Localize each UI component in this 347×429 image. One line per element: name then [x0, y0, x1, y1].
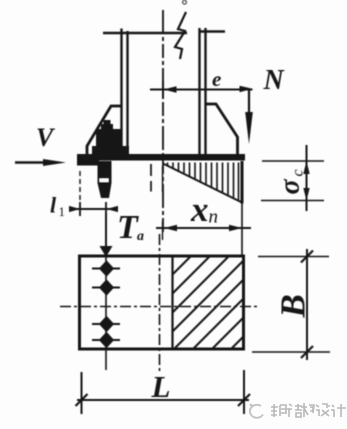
left stiffener gusset [87, 106, 121, 154]
force T_a arrowhead [100, 246, 113, 257]
column right flange line 1 [198, 28, 200, 154]
label sigma_c (rotated) [275, 169, 307, 194]
sigma_c bottom extension line [261, 200, 324, 202]
column left flange line 2 [126, 31, 128, 154]
B top extension line [258, 256, 329, 258]
l1 extension dashed line [79, 171, 81, 200]
bolt diamond 3 [99, 316, 114, 333]
force N line [248, 90, 250, 119]
plan horizontal centerline [60, 306, 257, 308]
stress hatch verticals [168, 163, 239, 201]
dimension B vertical line [306, 249, 308, 360]
dimension x_n right arrowhead [229, 225, 242, 231]
l1 left arrowhead [69, 206, 80, 212]
compression zone hatch lines [173, 256, 244, 349]
bolt diamond 1 [99, 260, 114, 277]
dimension x_n line [156, 227, 251, 229]
dimension x_n left arrowhead [164, 225, 177, 231]
watermark text 钢结构设计 [271, 403, 346, 417]
svg-text:σ: σ [275, 179, 306, 195]
svg-text:B: B [274, 294, 313, 318]
force N arrowhead [245, 112, 253, 144]
break line left segment [103, 32, 187, 34]
sigma_c up arrowhead [303, 161, 309, 174]
anchor bolt chair block [96, 129, 122, 154]
svg-text:a: a [137, 229, 144, 244]
force V arrowhead [43, 159, 66, 166]
B top tick [301, 251, 313, 263]
dimension e left arrowhead [164, 86, 177, 92]
column centerline (elevation, dash-dot) [162, 10, 164, 232]
anchor bolt stem above chair [104, 120, 111, 131]
l1 right tick [105, 202, 107, 216]
plan vertical centerline [159, 234, 161, 372]
sigma_c down arrowhead [303, 188, 309, 201]
svg-text:e: e [212, 67, 221, 91]
right edge extension to plan [241, 204, 243, 258]
dimension l1 line [71, 208, 118, 210]
small dot above break [183, 0, 187, 4]
force T_a shaft [105, 213, 107, 251]
dimension e tick at centerline [162, 81, 164, 98]
anchor bolt shank below plate [98, 161, 112, 198]
L right extension line [243, 370, 245, 414]
B bottom extension line [252, 351, 330, 353]
l1 right arrowhead [107, 206, 119, 212]
L left tick [76, 394, 88, 406]
svg-text:l: l [50, 193, 57, 218]
base plate left lip [77, 160, 99, 166]
break zigzag symbol [175, 12, 186, 59]
dimension sigma_c vertical line [306, 145, 308, 211]
svg-text:V: V [36, 123, 56, 152]
plan view base plate rectangle [80, 256, 244, 349]
compression zone left edge [171, 256, 173, 349]
B bottom tick [301, 346, 313, 358]
anchor bolt line in plan [105, 257, 107, 370]
column right flange line 2 [204, 28, 206, 154]
watermark logo swirl [250, 404, 263, 418]
bolt diamond 4 [99, 332, 114, 349]
stress triangle right edge [241, 161, 244, 204]
break line right segment [199, 30, 225, 32]
column left flange line 1 [120, 29, 122, 155]
anchor bolt seat plate [92, 146, 129, 155]
L right tick [238, 394, 250, 406]
short extension line under plate [150, 164, 152, 192]
bolt diamond 2 [99, 279, 114, 296]
right stiffener gusset [206, 104, 238, 154]
svg-text:N: N [263, 65, 286, 96]
force V line [15, 161, 46, 163]
dimension e right arrowhead [240, 86, 253, 92]
svg-text:L: L [151, 369, 171, 404]
dimension L line [77, 399, 249, 401]
svg-text:1: 1 [59, 204, 66, 219]
l1 left tick [79, 202, 81, 216]
svg-text:n: n [209, 207, 219, 228]
svg-text:x: x [190, 190, 209, 229]
base plate [77, 154, 245, 161]
sigma_c top extension line [262, 160, 324, 162]
svg-text:c: c [290, 169, 307, 176]
dimension e line [150, 89, 253, 91]
svg-text:T: T [117, 209, 139, 246]
L left extension line [81, 372, 83, 414]
stress triangle diagonal [163, 164, 242, 203]
neutral axis extension line [162, 166, 164, 240]
